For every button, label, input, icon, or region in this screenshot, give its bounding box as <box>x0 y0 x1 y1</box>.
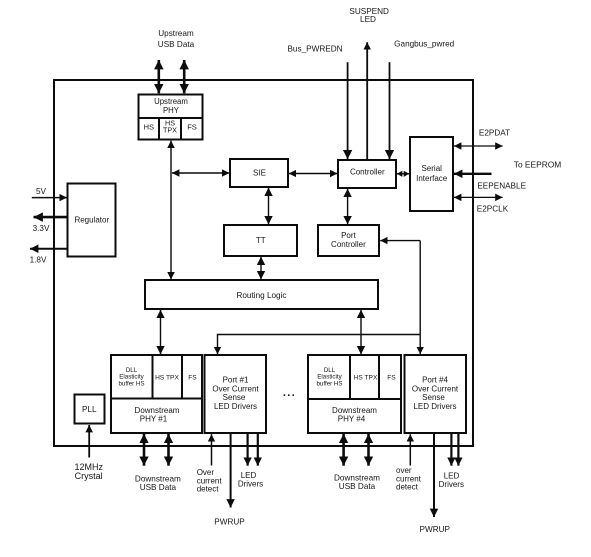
svg-text:buffer HS: buffer HS <box>118 380 144 387</box>
svg-text:detect: detect <box>197 485 220 494</box>
wire E2PDAT bidirectional <box>454 145 503 147</box>
wire downstream USB data port1 left <box>143 434 146 466</box>
block PLL <box>75 395 105 424</box>
svg-text:USB Data: USB Data <box>140 483 177 492</box>
svg-text:Port #1: Port #1 <box>223 376 249 385</box>
label To EEPROM <box>514 160 561 170</box>
svg-text:SIE: SIE <box>253 168 266 177</box>
wire Controller to Port Controller <box>347 189 349 225</box>
svg-text:Sense: Sense <box>422 393 445 402</box>
svg-text:Upstream: Upstream <box>158 29 194 38</box>
block SIE <box>230 159 288 187</box>
wire SUSPEND LED output from controller top <box>366 42 368 160</box>
block Port #4 Over Current Sense LED Drivers <box>405 355 467 433</box>
wire 3.3V output <box>34 216 68 219</box>
wire routing logic to downstream PHY 4 <box>360 310 362 355</box>
wire SIE to Controller <box>289 173 338 175</box>
svg-text:PHY: PHY <box>163 106 180 115</box>
svg-text:EEPENABLE: EEPENABLE <box>477 182 526 191</box>
svg-text:1.8V: 1.8V <box>30 256 47 265</box>
wire PWRUP port4 <box>433 434 435 518</box>
label LED Drivers port4 <box>439 472 464 490</box>
svg-text:LED Drivers: LED Drivers <box>413 402 456 411</box>
label 3.3V <box>33 224 50 233</box>
wire port controller to ports net: into port controller <box>218 241 421 355</box>
svg-text:PHY #4: PHY #4 <box>338 415 366 424</box>
svg-text:detect: detect <box>396 483 419 492</box>
svg-text:3.3V: 3.3V <box>33 224 50 233</box>
label Upstream USB Data <box>158 29 195 49</box>
label over current detect port4 <box>396 466 422 492</box>
label 1.8V <box>30 256 47 265</box>
svg-text:buffer HS: buffer HS <box>316 380 342 387</box>
label PWRUP port1 <box>214 518 245 527</box>
wire branch PHY line to SIE <box>172 172 229 174</box>
wire downstream USB data port4 right <box>367 434 370 466</box>
label Downstream USB Data port4 <box>334 474 380 492</box>
wire Bus_PWREDN input to controller <box>347 62 349 159</box>
wire LED driver port1 b <box>257 434 259 466</box>
label Over current detect port1 <box>197 468 223 494</box>
block Port #1 Over Current Sense LED Drivers <box>205 355 267 433</box>
block Serial Interface <box>410 137 453 211</box>
label SUSPEND LED <box>349 7 389 24</box>
label LED Drivers port1 <box>238 471 263 489</box>
svg-text:USB Data: USB Data <box>158 40 195 49</box>
svg-text:LED: LED <box>360 15 376 24</box>
wire LED driver port4 a <box>450 434 452 466</box>
wire SIE to TT <box>268 188 270 225</box>
label Gangbus_pwred <box>394 40 455 49</box>
label E2PCLK <box>477 205 509 214</box>
label E2PDAT <box>479 128 510 137</box>
svg-text:Routing Logic: Routing Logic <box>236 291 286 300</box>
svg-text:Port #4: Port #4 <box>422 376 448 385</box>
svg-text:Interface: Interface <box>416 174 448 183</box>
label Downstream USB Data port1 <box>135 474 181 492</box>
wire 5V input <box>32 197 67 199</box>
label PWRUP port4 <box>420 525 451 534</box>
svg-text:Serial: Serial <box>421 164 442 173</box>
wire routing logic to downstream PHY 1 <box>160 310 162 355</box>
label 12MHz Crystal <box>74 462 103 481</box>
wire upstream USB data arrow right <box>183 60 186 93</box>
block Regulator <box>68 184 116 257</box>
wire 12MHz crystal input to PLL <box>88 425 90 458</box>
svg-text:PLL: PLL <box>82 405 97 414</box>
block Downstream PHY #4 <box>308 355 401 433</box>
wire downstream USB data port1 right <box>167 434 170 466</box>
wire vertical down to port 4 <box>419 241 421 355</box>
svg-text:FS: FS <box>188 374 197 381</box>
svg-text:PHY #1: PHY #1 <box>140 415 168 424</box>
svg-text:...: ... <box>283 387 296 399</box>
wire LED driver port1 a <box>247 434 249 466</box>
label Bus_PWREDN <box>287 44 342 53</box>
wire EEPENABLE input <box>454 173 492 175</box>
wire upstream PHY TPX to routing logic vertical <box>170 141 172 280</box>
svg-text:Crystal: Crystal <box>75 471 103 481</box>
wire E2PCLK bidirectional <box>454 196 503 198</box>
wire upstream USB data arrow left <box>158 60 161 93</box>
svg-text:HS TPX: HS TPX <box>354 374 378 381</box>
outer chip boundary box <box>54 80 473 446</box>
svg-text:FS: FS <box>187 123 197 132</box>
svg-text:Gangbus_pwred: Gangbus_pwred <box>394 40 455 49</box>
block Controller <box>338 160 396 188</box>
svg-text:Regulator: Regulator <box>74 215 109 224</box>
svg-text:FS: FS <box>387 374 396 381</box>
wire over current detect port1 <box>211 434 213 465</box>
wire downstream USB data port4 left <box>342 434 345 466</box>
wire LED driver port4 b <box>457 434 459 466</box>
svg-text:Port: Port <box>341 231 356 240</box>
svg-text:TPX: TPX <box>163 126 177 135</box>
svg-text:LED Drivers: LED Drivers <box>214 402 257 411</box>
label 5V <box>36 187 47 196</box>
block Upstream PHY <box>139 95 203 140</box>
svg-text:Controller: Controller <box>331 240 366 249</box>
svg-text:Over Current: Over Current <box>412 385 459 394</box>
block Routing Logic <box>145 280 378 309</box>
block Downstream PHY #1 <box>111 355 202 433</box>
svg-text:To EEPROM: To EEPROM <box>514 160 561 170</box>
block TT <box>224 225 297 256</box>
svg-text:Drivers: Drivers <box>238 480 263 489</box>
wire horizontal branch to port 1 <box>218 335 421 355</box>
svg-text:HS: HS <box>144 123 154 132</box>
svg-text:HS TPX: HS TPX <box>155 374 179 381</box>
svg-text:USB Data: USB Data <box>339 482 376 491</box>
wire TT to Routing Logic <box>260 257 262 280</box>
wire 1.8V output <box>30 248 68 250</box>
svg-text:Controller: Controller <box>350 167 385 176</box>
svg-text:E2PDAT: E2PDAT <box>479 128 510 137</box>
ellipsis between port groups <box>283 387 296 399</box>
label EEPENABLE <box>477 182 526 191</box>
wire Controller to Serial Interface <box>397 173 409 175</box>
svg-text:Sense: Sense <box>223 393 246 402</box>
svg-text:PWRUP: PWRUP <box>214 518 245 527</box>
svg-text:TT: TT <box>256 236 266 245</box>
wire over current detect port4 <box>409 434 411 465</box>
svg-text:5V: 5V <box>36 187 47 196</box>
svg-text:Drivers: Drivers <box>439 480 464 489</box>
svg-text:Over Current: Over Current <box>212 385 259 394</box>
wire Gangbus_pwred input to controller <box>389 62 391 159</box>
wire PWRUP port1 <box>230 434 232 508</box>
svg-text:Bus_PWREDN: Bus_PWREDN <box>287 44 342 53</box>
svg-text:E2PCLK: E2PCLK <box>477 205 509 214</box>
block Port Controller <box>318 225 379 256</box>
svg-text:PWRUP: PWRUP <box>420 525 451 534</box>
